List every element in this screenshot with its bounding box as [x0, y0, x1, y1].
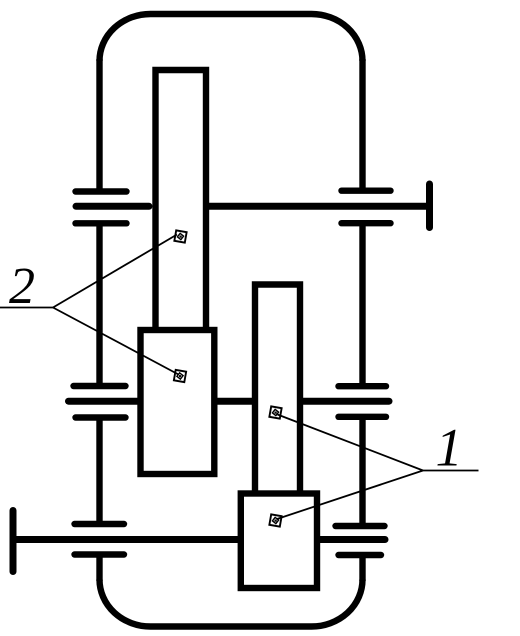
svg-text:2: 2: [9, 258, 35, 315]
svg-text:1: 1: [436, 418, 463, 478]
